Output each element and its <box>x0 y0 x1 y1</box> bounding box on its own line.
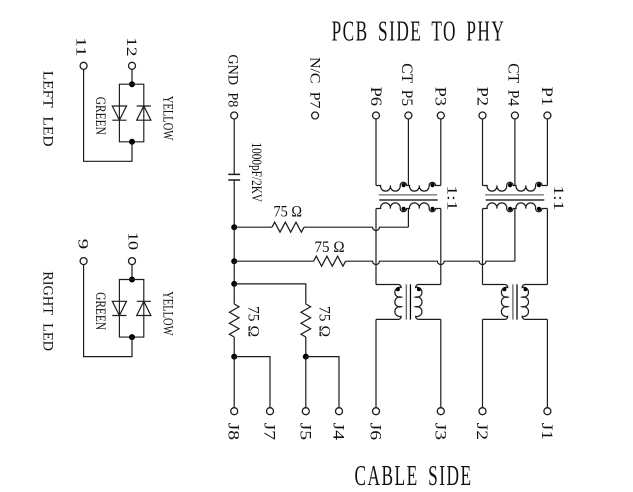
svg-text:10: 10 <box>125 232 141 250</box>
LED box outline <box>119 84 143 142</box>
svg-text:75 Ω: 75 Ω <box>315 239 345 256</box>
svg-text:J1: J1 <box>538 423 555 441</box>
LED yellow diode <box>137 301 151 315</box>
pin N/C P7 terminal <box>312 112 319 119</box>
svg-text:11: 11 <box>73 37 89 57</box>
transformer T1 primary winding <box>376 182 441 191</box>
svg-text:9: 9 <box>74 239 90 250</box>
pin P2 terminal <box>479 112 486 119</box>
pin GND P8 terminal <box>231 112 238 119</box>
svg-text:CT P4: CT P4 <box>505 63 522 106</box>
node A junction row1 <box>231 224 237 230</box>
wire LED box bottom to pin return <box>84 69 132 161</box>
svg-text:N/C P7: N/C P7 <box>306 57 322 109</box>
phase dot secondary right T2 <box>537 207 541 211</box>
LED yellow diode <box>137 106 151 120</box>
transformer T2 core line 1 <box>485 194 544 196</box>
wire secondary right leg T1 <box>440 209 442 285</box>
svg-text:GREEN: GREEN <box>92 97 108 135</box>
wire pin stub right T2 <box>546 119 548 186</box>
svg-text:YELLOW: YELLOW <box>159 291 175 336</box>
wire pin stub left T1 <box>375 119 377 186</box>
phase dot primary left T2 <box>508 183 512 187</box>
svg-text:GREEN: GREEN <box>92 292 108 330</box>
wire R1 to CT left (hops over winding leg) <box>304 227 408 230</box>
resistor R3 75ohm <box>229 304 239 337</box>
wire secondary left leg T2 <box>482 209 484 285</box>
transformer T1 core line 2 <box>379 199 438 201</box>
wire secondary right leg T2 <box>546 209 548 285</box>
phase dot secondary right T1 <box>430 207 434 211</box>
svg-text:CABLE SIDE: CABLE SIDE <box>355 460 473 492</box>
transformer T1 secondary winding <box>376 203 441 212</box>
pin P3 terminal <box>437 112 444 119</box>
wire node D to J8 <box>233 357 235 408</box>
svg-text:YELLOW: YELLOW <box>159 96 175 141</box>
choke L2 right winding <box>522 285 547 320</box>
wire pin stub right T1 <box>440 119 442 186</box>
node E junction <box>303 354 309 360</box>
svg-text:12: 12 <box>123 37 139 57</box>
phase dot secondary left T2 <box>508 207 512 211</box>
svg-text:P6: P6 <box>367 87 384 106</box>
svg-text:J6: J6 <box>367 423 384 441</box>
wire center tap riser right TX <box>514 209 516 262</box>
pin 12 terminal <box>129 62 136 69</box>
node LED box bottom junction <box>129 334 135 340</box>
wire R4 to node E <box>305 337 307 357</box>
svg-text:J4: J4 <box>330 423 347 441</box>
svg-text:LEFT LED: LEFT LED <box>40 71 56 147</box>
choke L1 left winding <box>376 285 401 320</box>
svg-text:75 Ω: 75 Ω <box>245 306 262 337</box>
phase dot secondary left T1 <box>402 207 406 211</box>
LED green diode <box>112 301 126 315</box>
choke L1 core line 2 <box>409 284 411 319</box>
wire P8 to capacitor <box>233 119 235 174</box>
wire node C to R3 <box>233 284 235 304</box>
svg-text:J3: J3 <box>431 423 448 441</box>
transformer T2 secondary winding <box>483 203 548 212</box>
pin P1 terminal <box>544 112 551 119</box>
resistor R1 75ohm <box>272 222 304 232</box>
svg-text:J7: J7 <box>261 423 278 441</box>
pin J8 terminal <box>231 408 238 415</box>
wire pin to LED box top <box>131 265 133 280</box>
node LED box top junction <box>129 277 135 283</box>
phase dot primary right T1 <box>430 183 434 187</box>
phase dot choke right L1 <box>417 287 421 291</box>
phase dot choke left L2 <box>502 287 506 291</box>
transformer T2 primary winding <box>483 182 548 191</box>
wire node C to R4 top <box>234 284 306 304</box>
svg-text:1:1: 1:1 <box>550 186 566 211</box>
svg-text:CT P5: CT P5 <box>398 63 415 106</box>
node D junction <box>231 354 237 360</box>
wire node A to node B <box>233 227 235 261</box>
wire node E to J4 <box>306 357 339 408</box>
wire choke right leg down L1 <box>440 319 442 407</box>
svg-text:PCB SIDE TO PHY: PCB SIDE TO PHY <box>332 16 506 48</box>
wire node A to R1 <box>234 226 272 228</box>
wire center tap riser left TX <box>407 209 409 228</box>
wire pin stub center T2 <box>514 119 516 186</box>
pin J6 terminal <box>373 408 380 415</box>
node C junction <box>231 281 237 287</box>
wire capacitor to node A <box>233 180 235 227</box>
wire R3 to node D <box>233 337 235 357</box>
phase dot primary right T2 <box>537 183 541 187</box>
choke L2 core line 2 <box>516 284 518 319</box>
svg-text:1:1: 1:1 <box>443 186 459 211</box>
svg-text:J8: J8 <box>225 423 242 441</box>
node B junction row2 <box>231 258 237 264</box>
resistor R4 75ohm <box>301 304 311 337</box>
wire R2 to CT right (hops over 3 legs) <box>346 261 515 264</box>
pin 9 terminal <box>80 258 87 265</box>
wire secondary left leg T1 <box>375 209 377 285</box>
pin P5 terminal <box>405 112 412 119</box>
svg-text:1000pF/2KV: 1000pF/2KV <box>248 143 264 203</box>
transformer T1 core line 1 <box>379 194 438 196</box>
wire LED box bottom to pin return <box>84 265 132 357</box>
node LED box bottom junction <box>129 139 135 145</box>
svg-text:P2: P2 <box>473 87 490 106</box>
phase dot primary left T1 <box>402 183 406 187</box>
node LED box top junction <box>129 81 135 87</box>
pin 10 terminal <box>129 258 136 265</box>
transformer T2 core line 2 <box>486 199 545 201</box>
wire choke left leg down L1 <box>375 319 377 407</box>
wire node E to J5 <box>305 357 307 408</box>
pin 11 terminal <box>80 62 87 69</box>
svg-text:75 Ω: 75 Ω <box>274 203 303 220</box>
resistor R2 75ohm <box>314 256 346 266</box>
choke L2 core line 1 <box>512 284 514 319</box>
wire choke right leg down L2 <box>546 319 548 407</box>
wire pin stub left T2 <box>482 119 484 186</box>
svg-text:RIGHT LED: RIGHT LED <box>40 271 56 351</box>
svg-text:75 Ω: 75 Ω <box>316 306 333 337</box>
wire pin to LED box top <box>131 69 133 84</box>
svg-text:J5: J5 <box>296 423 313 441</box>
pin J5 terminal <box>302 408 309 415</box>
svg-text:P1: P1 <box>538 87 555 106</box>
svg-text:GND P8: GND P8 <box>225 54 241 107</box>
wire node B to R2 <box>234 260 313 262</box>
wire node B to node C <box>233 261 235 284</box>
svg-text:P3: P3 <box>432 87 449 106</box>
pin J3 terminal <box>437 408 444 415</box>
wire pin stub center T1 <box>407 119 409 186</box>
LED box outline <box>119 280 143 338</box>
phase dot choke right L2 <box>523 287 527 291</box>
choke L1 core line 1 <box>405 284 407 319</box>
pin J2 terminal <box>479 408 486 415</box>
pin P6 terminal <box>373 112 380 119</box>
LED green diode <box>112 106 126 120</box>
choke L2 left winding <box>483 285 508 320</box>
pin J4 terminal <box>336 408 343 415</box>
pin J7 terminal <box>267 408 274 415</box>
choke L1 right winding <box>416 285 441 320</box>
phase dot choke left L1 <box>396 287 400 291</box>
wire choke left leg down L2 <box>482 319 484 407</box>
capacitor C1 1000pF/2KV <box>228 174 240 180</box>
svg-text:J2: J2 <box>473 423 490 441</box>
pin J1 terminal <box>544 408 551 415</box>
pin P4 terminal <box>511 112 518 119</box>
wire node D to J7 <box>234 357 270 408</box>
